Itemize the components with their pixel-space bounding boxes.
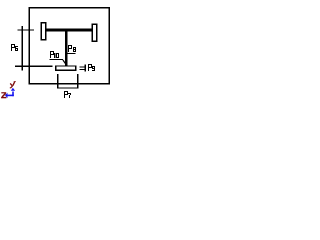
T-bar crossbeam xyxy=(46,29,92,32)
T stem xyxy=(65,31,67,66)
P8 underline xyxy=(68,53,76,54)
P6 dimension vertical line xyxy=(22,26,23,70)
label P9 xyxy=(88,64,95,71)
outer frame box xyxy=(29,8,109,84)
left guide block xyxy=(41,23,46,40)
P7 dimension left extension line xyxy=(57,74,59,89)
axis label z (dark red) xyxy=(1,92,6,98)
bottom reference line xyxy=(15,66,53,67)
label P7 xyxy=(64,91,71,98)
label P8 xyxy=(68,45,76,52)
P7 dimension bottom line xyxy=(57,87,79,88)
top reference line xyxy=(18,29,34,30)
axis z arrow (blue, left) xyxy=(5,93,14,99)
label P6 xyxy=(11,44,18,51)
P10 underline xyxy=(50,59,63,60)
P9 symbol dashes xyxy=(80,66,85,67)
bottom plate xyxy=(56,66,76,70)
P9 symbol vertical bar xyxy=(84,64,86,71)
right guide block xyxy=(92,24,96,41)
axis y arrow (blue, up) xyxy=(11,88,15,96)
label P10 xyxy=(50,51,59,58)
P7 dimension right extension line xyxy=(77,74,78,89)
axis label y (dark red) xyxy=(10,81,16,88)
P10 leader line xyxy=(63,60,67,66)
